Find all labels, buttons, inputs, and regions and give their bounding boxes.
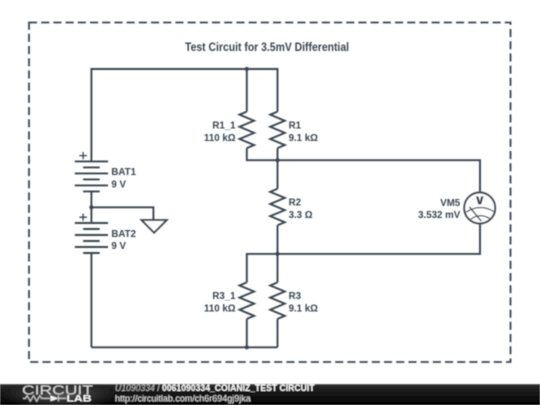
svg-text:3.3 Ω: 3.3 Ω	[289, 210, 313, 221]
svg-text:R3: R3	[289, 291, 302, 302]
svg-text:9.1 kΩ: 9.1 kΩ	[289, 304, 319, 315]
svg-text:BAT1: BAT1	[111, 167, 136, 178]
svg-text:U1090334 / 0061090334_COIANIZ_: U1090334 / 0061090334_COIANIZ_TEST CIRCU…	[115, 383, 315, 393]
svg-text:VM5: VM5	[440, 198, 461, 209]
svg-text:LAB: LAB	[67, 394, 93, 404]
svg-text:9 V: 9 V	[111, 179, 126, 190]
svg-text:BAT2: BAT2	[111, 229, 136, 240]
svg-text:110 kΩ: 110 kΩ	[204, 304, 236, 315]
svg-text:110 kΩ: 110 kΩ	[204, 133, 236, 144]
svg-text:9 V: 9 V	[111, 241, 126, 252]
svg-text:R1_1: R1_1	[212, 120, 236, 131]
svg-text:R1: R1	[289, 120, 302, 131]
svg-text:R3_1: R3_1	[212, 291, 236, 302]
svg-text:R2: R2	[289, 197, 301, 208]
svg-text:Test Circuit for 3.5mV Differe: Test Circuit for 3.5mV Differential	[185, 40, 349, 54]
svg-text:9.1 kΩ: 9.1 kΩ	[289, 133, 319, 144]
svg-text:3.532 mV: 3.532 mV	[418, 210, 461, 221]
svg-text:http://circuitlab.com/ch6r694g: http://circuitlab.com/ch6r694gj9jka	[115, 393, 251, 403]
